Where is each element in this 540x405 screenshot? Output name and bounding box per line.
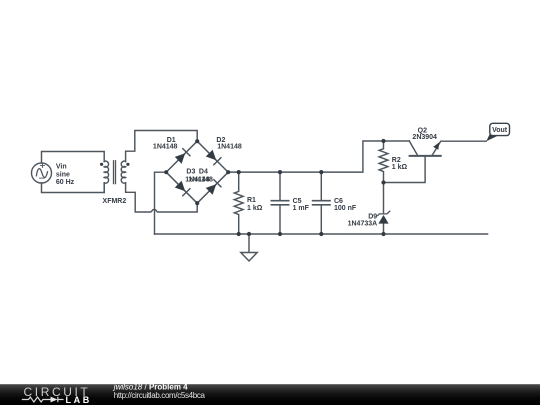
svg-text:Vout: Vout <box>492 127 508 134</box>
svg-text:1 kΩ: 1 kΩ <box>247 205 263 212</box>
svg-text:LAB: LAB <box>66 395 92 405</box>
svg-text:C6: C6 <box>334 198 343 205</box>
svg-text:http://circuitlab.com/c5s4bca: http://circuitlab.com/c5s4bca <box>114 391 206 400</box>
svg-text:1N4148: 1N4148 <box>188 177 213 184</box>
svg-text:1 kΩ: 1 kΩ <box>392 164 408 171</box>
svg-text:C5: C5 <box>293 198 302 205</box>
svg-text:sine: sine <box>56 171 70 178</box>
svg-text:D3: D3 <box>186 169 195 176</box>
svg-text:Vin: Vin <box>56 164 67 171</box>
svg-text:XFMR2: XFMR2 <box>103 198 127 205</box>
svg-text:D4: D4 <box>199 169 208 176</box>
svg-text:1 mF: 1 mF <box>293 205 310 212</box>
svg-text:1N4148: 1N4148 <box>217 144 242 151</box>
svg-text:D9: D9 <box>368 213 377 220</box>
svg-text:1N4733A: 1N4733A <box>348 221 378 228</box>
svg-text:100 nF: 100 nF <box>334 205 357 212</box>
svg-text:1N4148: 1N4148 <box>153 144 178 151</box>
svg-text:2N3904: 2N3904 <box>412 134 437 141</box>
svg-text:R1: R1 <box>247 197 256 204</box>
svg-text:60 Hz: 60 Hz <box>56 179 75 186</box>
svg-text:R2: R2 <box>392 157 401 164</box>
